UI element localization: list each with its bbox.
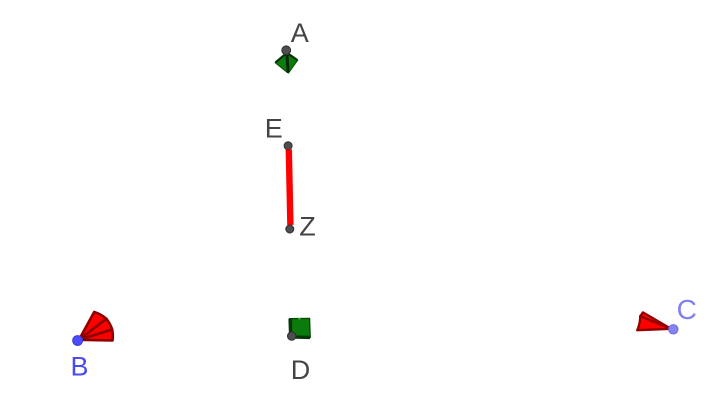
svg-text:E: E <box>265 114 283 144</box>
point C <box>669 325 678 334</box>
angle fan at B: wedge 2 (middle) <box>79 319 112 340</box>
right angle square at D <box>290 318 311 337</box>
svg-text:Z: Z <box>299 211 316 241</box>
point B <box>73 336 83 346</box>
shading bottom edge of square at D <box>290 335 310 339</box>
point A <box>282 46 291 55</box>
svg-text:C: C <box>677 294 697 325</box>
svg-text:A: A <box>291 18 309 48</box>
point Z <box>286 225 294 233</box>
sector edge A to right tip <box>288 53 298 60</box>
angle sector (right) at A <box>287 53 297 73</box>
point E <box>284 142 292 150</box>
point D <box>288 332 296 340</box>
sector edge A to left tip <box>276 53 287 62</box>
bisector ray stub at A <box>287 54 288 73</box>
svg-text:B: B <box>71 351 89 381</box>
angle fan at B: wedge 3 (top) <box>79 312 106 340</box>
highlight speck on square at D <box>298 318 300 320</box>
svg-text:D: D <box>291 355 311 385</box>
segment EZ (red) <box>289 150 291 225</box>
angle sector (left) at A <box>275 53 287 72</box>
shading left edge of square at D <box>288 319 292 337</box>
angle fan at B: wedge 1 (lowest) <box>79 330 113 341</box>
angle fan at C: wedge lower <box>637 316 671 330</box>
angle fan at C: wedge upper <box>640 312 671 328</box>
